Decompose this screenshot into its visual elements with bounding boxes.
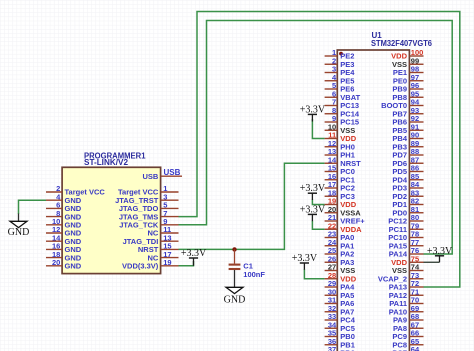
U1 pin 36 (PB1) (325, 337, 355, 350)
U1 pin 75 (VDD) (391, 254, 423, 267)
U1 pin 78 (PC10) (388, 230, 423, 243)
svg-text:USB: USB (142, 172, 158, 181)
svg-text:20: 20 (52, 258, 60, 267)
svg-text:64: 64 (411, 345, 420, 351)
U1 pin 33 (PC4) (325, 312, 356, 325)
PROGRAMMER1 pin 18 (GND) left (46, 250, 82, 263)
U1 pin 70 (PA11) (389, 296, 423, 309)
power port +3.3V at U1 pin 11 (300, 104, 326, 121)
U1 pin 24 (PA1) (325, 238, 355, 251)
U1 pin 82 (PD1) (392, 197, 423, 210)
U1 pin 83 (PD2) (392, 188, 423, 201)
U1 pin 25 (PA2) (325, 246, 355, 259)
PROGRAMMER1 pin USB (142, 172, 182, 181)
U1 pin 98 (PE1) (393, 65, 424, 78)
U1 pin 10 (VSS) (325, 122, 356, 135)
wire +3.3V to U1 VDD pin 75 (424, 261, 440, 263)
svg-text:19: 19 (163, 258, 171, 267)
PROGRAMMER1 pin 3 (JTAG_TRST) right (115, 192, 178, 205)
PROGRAMMER1 pin 10 (GND) left (46, 217, 82, 230)
PROGRAMMER1 pin 17 (NC) right (147, 250, 178, 263)
U1 pin 9 (PC15) (325, 114, 359, 127)
U1 pin 21 (VREF+) (325, 213, 366, 226)
svg-text:+3.3V: +3.3V (300, 104, 326, 115)
U1 pin 4 (PE5) (325, 73, 355, 86)
wire NRST net: PROGRAMMER1 pin 15 to U1 NRST (pin 14) (179, 163, 325, 249)
U1 pin 71 (PA12) (389, 287, 424, 300)
U1 pin 64 (PC7) (392, 345, 423, 351)
PROGRAMMER1 pin 12 (GND) left (46, 225, 82, 238)
U1 pin 29 (PA4) (325, 279, 356, 292)
U1 pin 97 (PE0) (393, 73, 424, 86)
svg-text:+3.3V: +3.3V (292, 253, 318, 264)
microcontroller U1 STM32F407VGT6 (designator + body) (337, 31, 432, 351)
svg-text:GND: GND (224, 294, 246, 305)
U1 pin 66 (PC9) (392, 329, 423, 342)
PROGRAMMER1 pin 11 (NC) right (147, 225, 178, 238)
svg-text:+3.3V: +3.3V (427, 246, 453, 257)
connector PROGRAMMER1 ST-LINK/V2 (designator + body) (62, 151, 161, 273)
capacitor C1 100nF on NRST net (229, 249, 266, 278)
PROGRAMMER1 pin 15 (NRST) right (138, 242, 179, 255)
U1 pin 5 (PE6) (325, 81, 355, 94)
U1 pin 74 (VSS) (392, 263, 424, 276)
U1 pin 18 (PC3) (325, 188, 355, 201)
wire +3.3V to U1 VDD pin 28 (304, 269, 324, 278)
U1 pin 12 (PH0) (325, 139, 355, 152)
wire +3.3V to U1 VDD pin 11 (312, 119, 324, 139)
U1 pin 65 (PC8) (392, 337, 423, 350)
U1 pin 67 (PA8) (393, 320, 424, 333)
U1 pin 99 (VSS) (392, 56, 424, 68)
PROGRAMMER1 pin 4 (GND) left (46, 192, 82, 205)
PROGRAMMER1 pin 1 (Target VCC) right (118, 184, 178, 197)
U1 pin 3 (PE4) (325, 65, 356, 78)
power port +3.3V at U1 pin 19 (300, 183, 326, 200)
PROGRAMMER1 pin 5 (JTAG_TDO) right (119, 201, 179, 214)
wire +3.3V to U1 VDD pin 19 (312, 200, 324, 205)
svg-text:+3.3V: +3.3V (181, 248, 207, 259)
U1 pin 19 (VDD) (325, 197, 357, 210)
U1 pin 94 (BOOT0) (381, 98, 423, 111)
svg-text:100nF: 100nF (243, 270, 265, 279)
PROGRAMMER1 pin 13 (JTAG_TDI) right (123, 233, 179, 246)
svg-text:+3.3V: +3.3V (300, 183, 326, 194)
U1 pin 17 (PC2) (325, 180, 355, 193)
U1 pin 27 (VSS) (325, 263, 356, 276)
PROGRAMMER1 pin 7 (JTAG_TMS) right (119, 209, 179, 222)
U1 pin 100 (VDD) (391, 48, 423, 61)
U1 pin 6 (VBAT) (325, 89, 361, 102)
U1 pin 28 (VDD) (325, 271, 357, 284)
U1 pin 11 (VDD) (325, 131, 357, 144)
svg-text:USB: USB (164, 168, 181, 177)
power port +3.3V at PROGRAMMER1 pin 19 (181, 248, 207, 266)
U1 pin 16 (PC1) (325, 172, 355, 185)
U1 pin 2 (PE3) (325, 56, 355, 68)
U1 pin 81 (PD0) (392, 205, 423, 218)
U1 pin 22 (VDDA) (325, 221, 363, 234)
U1 pin 35 (PB0) (325, 329, 355, 342)
U1 pin 89 (PB3) (392, 139, 423, 152)
U1 pin 85 (PD4) (392, 172, 423, 185)
U1 pin 32 (PA7) (325, 304, 355, 317)
svg-text:VDD(3.3V): VDD(3.3V) (122, 262, 159, 271)
U1 pin 13 (PH1) (325, 147, 355, 160)
U1 pin 79 (PC11) (389, 221, 424, 234)
U1 pin 88 (PD7) (392, 147, 423, 160)
U1 pin 95 (PB8) (392, 89, 423, 102)
U1 pin 30 (PA5) (325, 287, 355, 300)
U1 pin 31 (PA6) (325, 296, 355, 309)
svg-text:37: 37 (328, 345, 336, 351)
U1 pin 37 (PB2) (325, 345, 355, 351)
wire JTAG_TCK / SWCLK net: PROGRAMMER1 pin 9 to U1 PA14 (pin 76) (179, 21, 453, 255)
U1 pin 80 (PC12) (388, 213, 423, 226)
PROGRAMMER1 pin 8 (GND) left (46, 209, 82, 222)
svg-text:ST-LINK/V2: ST-LINK/V2 (84, 158, 129, 167)
wire JTAG_TMS / SWDIO net: PROGRAMMER1 pin 7 to U1 PA13 (pin 72) (179, 12, 460, 288)
U1 pin 1 (PE2) (325, 48, 355, 61)
U1 pin 77 (PA15) (389, 238, 424, 251)
svg-text:STM32F407VGT6: STM32F407VGT6 (371, 39, 433, 48)
U1 pin 90 (PB4) (392, 131, 423, 144)
PROGRAMMER1 pin 14 (GND) left (46, 233, 82, 246)
power port +3.3V at U1 pin 22 (300, 204, 326, 221)
PROGRAMMER1 pin 16 (GND) left (46, 242, 82, 255)
wire GND net from PROGRAMMER1 pin 4 (19, 200, 47, 214)
power port +3.3V at U1 pin 75 (427, 246, 453, 262)
wire +3.3V to U1 VDDA pin 22 (312, 221, 324, 229)
U1 pin 23 (PA0) (325, 230, 355, 243)
U1 pin 92 (PB6) (392, 114, 423, 127)
U1 pin 86 (PD5) (392, 164, 423, 177)
U1 pin 14 (NRST) (325, 155, 362, 168)
U1 pin 84 (PD3) (392, 180, 423, 193)
svg-text:+3.3V: +3.3V (300, 204, 326, 215)
PROGRAMMER1 pin 20 (GND) left (46, 258, 82, 271)
U1 pin 91 (PB5) (392, 122, 423, 135)
U1 pin 20 (VSSA) (325, 205, 362, 218)
U1 pin 72 (PA13) (389, 279, 424, 292)
junction on NRST net at C1 (232, 247, 236, 251)
PROGRAMMER1 pin 9 (JTAG_TCK) right (119, 217, 178, 230)
U1 pin 15 (PC0) (325, 164, 355, 177)
ground symbol GND below C1 (224, 270, 246, 305)
svg-text:GND: GND (65, 262, 82, 271)
U1 pin 68 (PA9) (393, 312, 424, 325)
U1 pin 26 (PA3) (325, 254, 355, 267)
U1 pin 93 (PB7) (392, 106, 423, 119)
PROGRAMMER1 pin 2 (Target VCC) left (46, 184, 105, 197)
power port +3.3V at U1 pin 28 (292, 253, 318, 270)
PROGRAMMER1 pin 19 (VDD(3.3V)) right (122, 258, 178, 271)
U1 pin 34 (PC5) (325, 320, 355, 333)
U1 pin 8 (PC14) (325, 106, 360, 119)
U1 pin 96 (PB9) (392, 81, 423, 94)
U1 pin 87 (PD6) (392, 155, 423, 168)
ground symbol GND at PROGRAMMER1 pin 4 net (8, 214, 30, 238)
svg-text:GND: GND (8, 227, 30, 238)
U1 pin 7 (PC13) (325, 98, 359, 111)
wire +3.3V to PROGRAMMER1 pin 19 (179, 261, 194, 266)
PROGRAMMER1 pin 6 (GND) left (46, 201, 82, 214)
U1 pin 73 (VCAP_2) (378, 271, 424, 284)
U1 pin 69 (PA10) (389, 304, 424, 317)
U1 pin 76 (PA14) (389, 246, 424, 259)
